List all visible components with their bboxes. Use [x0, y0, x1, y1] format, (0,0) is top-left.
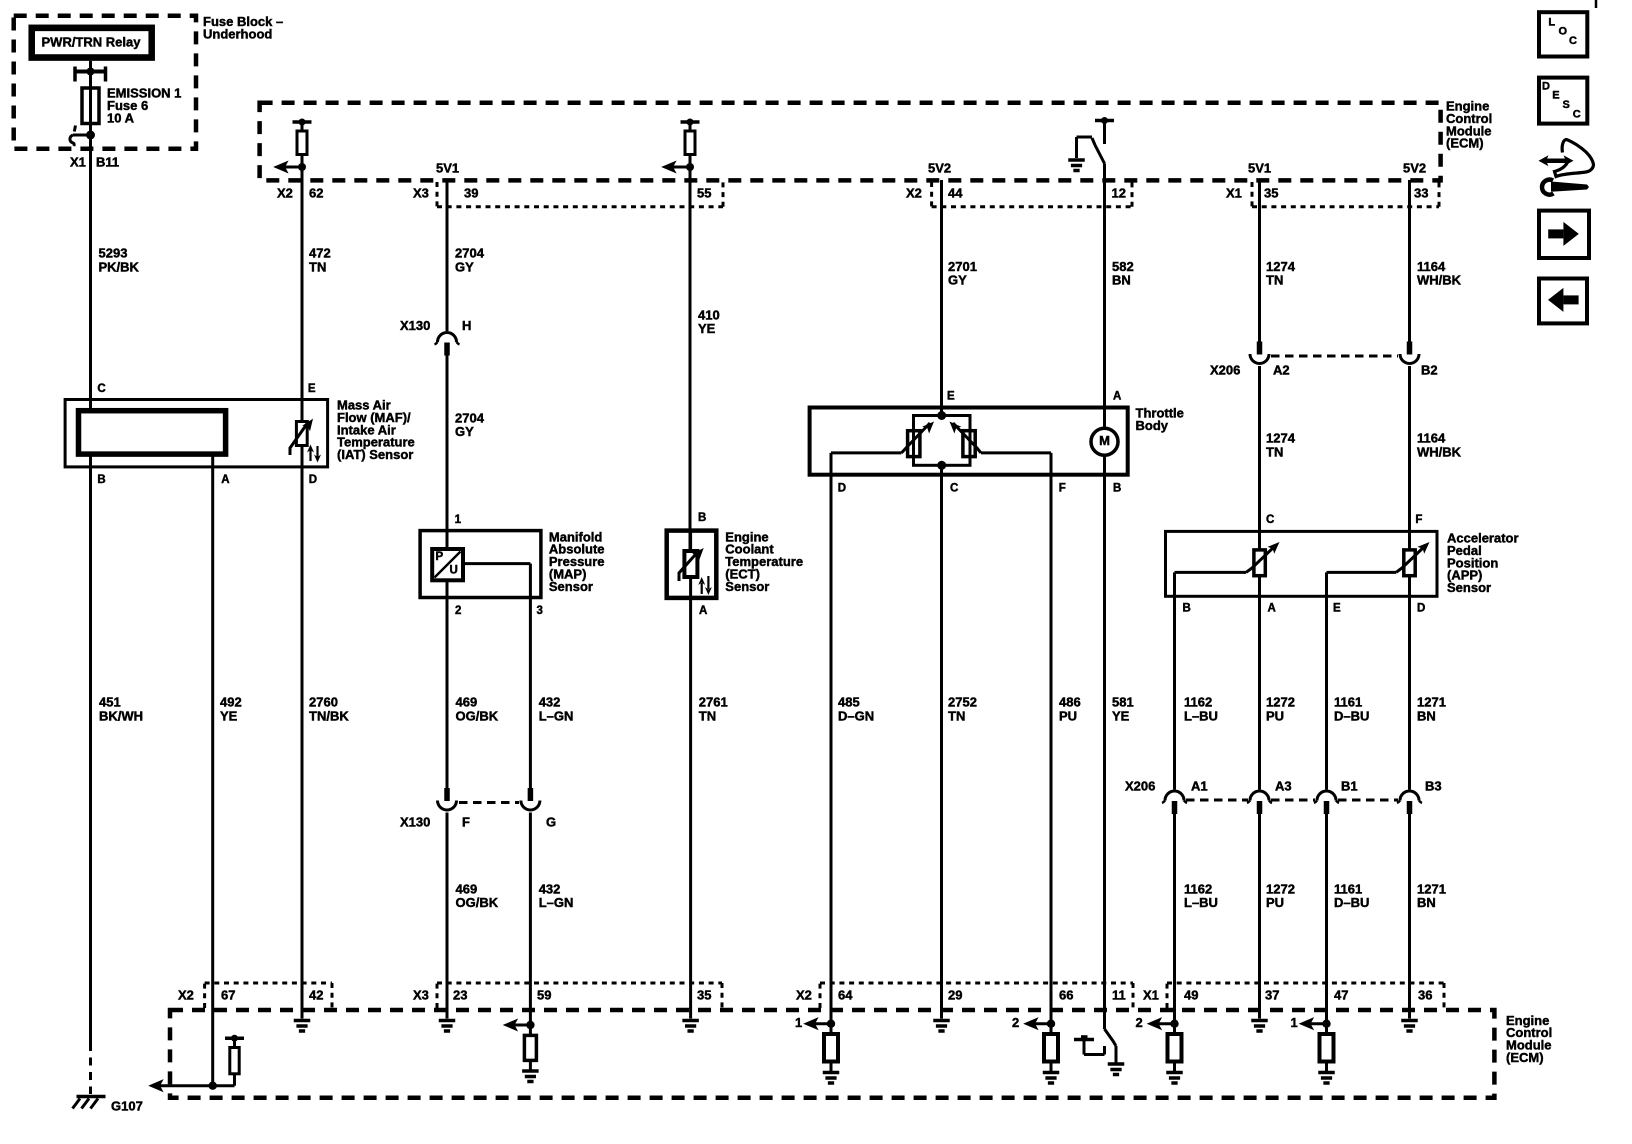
svg-text:432: 432	[539, 695, 561, 710]
svg-text:X130: X130	[400, 815, 430, 830]
svg-text:U: U	[450, 564, 458, 576]
svg-text:(ECM): (ECM)	[1506, 1050, 1544, 1065]
svg-text:Body: Body	[1136, 418, 1169, 433]
svg-text:2: 2	[1012, 1015, 1019, 1030]
svg-text:5293: 5293	[99, 246, 128, 261]
svg-text:M: M	[1099, 433, 1110, 448]
svg-text:55: 55	[697, 186, 711, 201]
svg-text:D: D	[838, 482, 846, 494]
svg-text:1164: 1164	[1417, 431, 1446, 446]
svg-text:TN: TN	[1266, 273, 1283, 288]
ECM internal resistor+arrow at pin 59	[504, 1020, 539, 1082]
svg-text:A2: A2	[1273, 363, 1290, 378]
svg-text:1: 1	[795, 1015, 802, 1030]
svg-text:X2: X2	[796, 988, 812, 1003]
svg-text:B1: B1	[1341, 779, 1358, 794]
dashed link X206 A2-B2	[1271, 355, 1398, 358]
APP sensor box	[1166, 531, 1519, 597]
wire 581 YE (TB B to ECM 11)	[1105, 475, 1134, 1029]
ECM ground at pin 36	[1401, 1021, 1418, 1032]
throttle body pin letters	[838, 391, 1122, 495]
wire 1271 BN (APP D to X206 B3)	[1410, 596, 1446, 789]
svg-text:(IAT) Sensor: (IAT) Sensor	[337, 447, 413, 462]
svg-text:44: 44	[948, 186, 963, 201]
svg-text:A: A	[1268, 603, 1276, 615]
APP pin letters C F B A E D	[1183, 514, 1426, 615]
svg-text:472: 472	[309, 246, 331, 261]
svg-text:2752: 2752	[948, 695, 977, 710]
svg-text:2704: 2704	[455, 246, 485, 261]
svg-text:42: 42	[309, 988, 323, 1003]
fuse EMISSION 1 / Fuse 6 / 10 A	[82, 86, 181, 136]
svg-text:469: 469	[456, 695, 478, 710]
svg-text:B11: B11	[96, 155, 119, 170]
inline connector X206 pin A1	[1125, 779, 1208, 815]
svg-text:P: P	[436, 551, 444, 563]
svg-text:Sensor: Sensor	[549, 579, 593, 594]
svg-text:GY: GY	[948, 273, 967, 288]
wire 472 TN (ECM 62 to MAF pin E)	[302, 167, 331, 422]
svg-text:5V2: 5V2	[1403, 161, 1426, 176]
wire 492 YE (MAF A to ECM 67)	[213, 454, 242, 1086]
svg-text:BN: BN	[1417, 709, 1436, 724]
connector strip X2 pins 64 / 29 / 66 / 11 (bottom)	[796, 983, 1133, 1008]
ECT pin letters B A	[698, 512, 707, 617]
svg-text:BN: BN	[1112, 273, 1131, 288]
connector X1 pin B11 labels	[70, 155, 119, 170]
svg-text:YE: YE	[698, 321, 716, 336]
svg-text:B: B	[698, 512, 706, 524]
svg-text:WH/BK: WH/BK	[1417, 445, 1462, 460]
wire 1161 D-BU (X206 B1 to ECM 47)	[1327, 814, 1370, 1024]
dashed links X206 A1-A3-B1-B3	[1186, 799, 1398, 802]
svg-text:5V1: 5V1	[436, 161, 459, 176]
svg-text:TN: TN	[699, 709, 716, 724]
svg-text:D–BU: D–BU	[1334, 895, 1369, 910]
svg-text:67: 67	[221, 988, 235, 1003]
svg-text:PK/BK: PK/BK	[99, 260, 140, 275]
svg-text:E: E	[1333, 603, 1341, 615]
ECM internal resistor at pin 62	[275, 119, 312, 173]
svg-text:L–GN: L–GN	[539, 895, 574, 910]
svg-text:5V2: 5V2	[928, 161, 951, 176]
svg-text:59: 59	[537, 988, 551, 1003]
svg-text:D–BU: D–BU	[1334, 709, 1369, 724]
svg-text:Underhood: Underhood	[203, 27, 272, 42]
ECM internal switch to ground at pin 11	[1074, 1029, 1124, 1075]
ECM ground at pin 29	[933, 1021, 950, 1032]
svg-text:A: A	[1113, 391, 1121, 403]
svg-text:C: C	[1266, 514, 1274, 526]
svg-text:D: D	[309, 474, 317, 486]
svg-text:3: 3	[537, 605, 543, 617]
svg-text:486: 486	[1059, 695, 1081, 710]
inline connector X130 pin H	[400, 318, 471, 356]
TPS 1 potentiometer (left)	[902, 422, 935, 457]
svg-text:D: D	[1417, 603, 1425, 615]
svg-text:C: C	[1573, 108, 1581, 120]
net label 5V2 at pin 44	[928, 161, 951, 176]
ECM bottom box (dashed boundary)	[170, 1010, 1552, 1098]
svg-text:62: 62	[309, 186, 323, 201]
svg-text:Sensor: Sensor	[725, 579, 769, 594]
svg-text:B: B	[97, 474, 105, 486]
svg-text:C: C	[97, 383, 105, 395]
svg-text:L–GN: L–GN	[539, 709, 574, 724]
svg-text:L–BU: L–BU	[1184, 709, 1218, 724]
svg-text:B2: B2	[1421, 363, 1438, 378]
TPS 2 potentiometer (right)	[950, 422, 982, 457]
wire 1271 BN (X206 B3 to ECM 36)	[1410, 814, 1446, 1019]
MAP sensor box	[420, 529, 604, 597]
svg-text:X3: X3	[413, 186, 429, 201]
svg-text:D–GN: D–GN	[838, 709, 874, 724]
svg-text:66: 66	[1059, 988, 1073, 1003]
svg-text:X2: X2	[178, 988, 194, 1003]
svg-text:36: 36	[1418, 988, 1432, 1003]
svg-text:1271: 1271	[1417, 695, 1446, 710]
svg-text:PU: PU	[1266, 895, 1284, 910]
inline connector X206 pin B3	[1397, 779, 1442, 815]
inline connector X130 pin F	[400, 788, 470, 830]
fuse holder lower clip and junction	[70, 126, 95, 147]
inline connector X206 pin B1	[1314, 779, 1358, 815]
svg-text:485: 485	[838, 695, 860, 710]
svg-text:F: F	[1415, 514, 1422, 526]
ECM top box (dashed boundary)	[260, 99, 1493, 181]
svg-text:L–BU: L–BU	[1184, 895, 1218, 910]
svg-text:BK/WH: BK/WH	[99, 709, 143, 724]
svg-text:TN/BK: TN/BK	[309, 709, 349, 724]
svg-text:1: 1	[455, 514, 462, 526]
svg-text:BN: BN	[1417, 895, 1436, 910]
svg-text:L: L	[1548, 17, 1555, 29]
ECM internal resistor current-source 1 at pin 64	[795, 1015, 839, 1083]
svg-text:H: H	[462, 318, 471, 333]
svg-text:1: 1	[1291, 1015, 1298, 1030]
MAF pin letters C E B A D	[97, 383, 317, 486]
svg-text:1272: 1272	[1266, 695, 1295, 710]
svg-text:X206: X206	[1125, 779, 1155, 794]
wire 451 BK/WH (MAF B to G107)	[91, 454, 144, 1094]
svg-text:B: B	[1183, 603, 1191, 615]
ECM internal resistor at pin 55	[663, 119, 700, 173]
wire 1164 WH/BK (X206 B2 to APP pin F)	[1410, 366, 1462, 550]
svg-text:2: 2	[1136, 1015, 1143, 1030]
connector strip X3 pins 23 / 59 / 35 (bottom)	[413, 983, 722, 1008]
svg-text:G107: G107	[111, 1099, 143, 1114]
connector strip X2 pins 44 / 12 (top)	[906, 182, 1132, 207]
svg-text:G: G	[546, 815, 556, 830]
svg-text:GY: GY	[455, 260, 474, 275]
wire 1161 D-BU (APP E to X206 B1)	[1327, 596, 1370, 789]
ECT thermistor	[679, 531, 712, 598]
wire 2752 TN (TB C to ECM 29)	[942, 465, 977, 1018]
ECM ground at pin 42	[294, 1021, 311, 1032]
svg-text:64: 64	[838, 988, 853, 1003]
svg-text:E: E	[1552, 90, 1559, 102]
APP wiper feed wires	[1175, 572, 1397, 596]
svg-text:(ECM): (ECM)	[1446, 136, 1484, 151]
ECM ground at pin 37	[1251, 1021, 1268, 1032]
svg-text:A1: A1	[1191, 779, 1208, 794]
icon flip/mirror with wrench	[1539, 140, 1594, 195]
svg-text:OG/BK: OG/BK	[456, 895, 499, 910]
svg-text:TN: TN	[1266, 445, 1283, 460]
svg-text:Sensor: Sensor	[1447, 580, 1491, 595]
wire 2760 TN/BK (MAF D to ECM 42)	[302, 467, 349, 1019]
throttle motor M	[1091, 408, 1118, 475]
connector strip X2 pins 67 / 42 (bottom)	[178, 983, 332, 1008]
svg-text:PWR/TRN Relay: PWR/TRN Relay	[42, 35, 142, 50]
MAP internal wire pin3	[463, 564, 530, 598]
MAF element (inner box)	[79, 411, 226, 454]
svg-text:X2: X2	[906, 186, 922, 201]
svg-text:YE: YE	[220, 709, 238, 724]
svg-text:35: 35	[1264, 186, 1278, 201]
APP potentiometer 2 (F/D/E)	[1396, 531, 1430, 596]
wire 469 OG/BK (MAP 2 to X130 F)	[447, 598, 499, 789]
wire 2701 GY (ECM 44 to throttle body pin E)	[942, 180, 977, 416]
svg-text:581: 581	[1112, 695, 1134, 710]
svg-text:TN: TN	[948, 709, 965, 724]
wire 410 YE (ECM 55 to ECT pin B)	[690, 167, 720, 551]
fuse holder upper terminal bracket	[75, 67, 106, 82]
svg-text:C: C	[1569, 35, 1577, 47]
throttle body box	[810, 406, 1184, 475]
svg-text:B: B	[1113, 482, 1121, 494]
net label 5V1 at pin 39	[436, 161, 459, 176]
ground G107	[73, 1097, 143, 1114]
MAP P/U transducer symbol	[432, 531, 463, 598]
svg-text:2: 2	[455, 605, 461, 617]
ECM ground at pin 23	[439, 1021, 456, 1032]
ECM internal resistor current-source 2 at pin 66	[1012, 1015, 1059, 1083]
wire from relay to fuse	[89, 61, 92, 88]
inline connector X130 pin G	[521, 788, 556, 830]
svg-text:29: 29	[948, 988, 962, 1003]
connector labels X2 / 62	[277, 186, 323, 201]
MAP pin numbers 1 2 3	[455, 514, 543, 617]
wire 1274 TN (ECM 35 to X206 A2)	[1260, 180, 1296, 342]
connector strip X3 pins 39 / 55 (top)	[413, 182, 723, 207]
icon button previous (left arrow)	[1539, 279, 1587, 324]
MAF/IAT sensor box	[65, 398, 415, 467]
icon button LOC	[1539, 12, 1587, 56]
svg-text:OG/BK: OG/BK	[456, 709, 499, 724]
wire 2761 TN (ECT A to ECM 35)	[691, 598, 728, 1019]
svg-text:2760: 2760	[309, 695, 338, 710]
svg-text:X206: X206	[1210, 363, 1240, 378]
wire 432 L-GN (X130 G to ECM 59)	[530, 813, 573, 1026]
svg-text:A: A	[221, 474, 229, 486]
svg-text:B3: B3	[1425, 779, 1442, 794]
svg-text:37: 37	[1265, 988, 1279, 1003]
page top tick mark	[1595, 0, 1598, 8]
svg-text:C: C	[950, 482, 958, 494]
icon button next (right arrow)	[1539, 211, 1589, 258]
wire 1162 L-BU (X206 A1 to ECM 49)	[1175, 814, 1218, 1024]
inline connector X206 pin A2	[1210, 342, 1290, 378]
connector strip X1 pins 49 / 37 / 47 / 36 (bottom)	[1143, 983, 1444, 1008]
wire 432 L-GN (MAP 3 to X130 G)	[530, 598, 573, 789]
svg-text:E: E	[308, 383, 316, 395]
wire 485 D-GN (TB D to ECM 64)	[831, 453, 874, 1024]
svg-text:GY: GY	[455, 424, 474, 439]
wire 486 PU (TB F to ECM 66)	[1051, 453, 1081, 1024]
wire 1162 L-BU (APP B to X206 A1)	[1175, 596, 1218, 789]
APP potentiometer 1 (C/A/B)	[1246, 531, 1280, 596]
wire 2704 GY (X130 H to MAP pin 1)	[447, 356, 485, 550]
svg-text:12: 12	[1112, 186, 1126, 201]
wire 1274 TN (X206 A2 to APP pin C)	[1260, 366, 1296, 550]
svg-text:A: A	[699, 605, 707, 617]
connector strip X1 pins 35 / 33 (top)	[1226, 182, 1439, 207]
inline connector X206 pin B2	[1400, 342, 1438, 378]
wire 1272 PU (X206 A3 to ECM 37)	[1260, 814, 1295, 1019]
wire 582 BN (ECM 12 to throttle body pin A)	[1105, 164, 1134, 429]
svg-text:X130: X130	[400, 318, 430, 333]
svg-text:49: 49	[1184, 988, 1198, 1003]
dashed link X130 F-G	[459, 801, 519, 804]
relay PWR/TRN	[32, 28, 152, 58]
svg-text:1161: 1161	[1334, 695, 1362, 710]
svg-text:O: O	[1559, 26, 1568, 38]
wire 1164 WH/BK (ECM 33 to X206 B2)	[1410, 180, 1462, 342]
svg-text:D: D	[1542, 80, 1550, 92]
svg-text:X1: X1	[1226, 186, 1242, 201]
svg-text:11: 11	[1112, 988, 1126, 1003]
svg-text:5V1: 5V1	[1248, 161, 1271, 176]
svg-text:PU: PU	[1266, 709, 1284, 724]
svg-text:F: F	[1059, 482, 1066, 494]
svg-text:F: F	[462, 815, 470, 830]
svg-text:X3: X3	[413, 988, 429, 1003]
svg-text:X1: X1	[70, 155, 86, 170]
wire 5293 PK/BK (B11 to MAF pin C)	[91, 135, 140, 411]
svg-text:23: 23	[453, 988, 467, 1003]
wire 2704 GY (ECM 39 to X130 H)	[447, 180, 485, 331]
fuse block - underhood (dashed boundary)	[14, 14, 284, 149]
svg-text:X2: X2	[277, 186, 293, 201]
svg-text:2761: 2761	[699, 695, 728, 710]
ECM internal resistor+arrow at pin 67	[150, 1035, 245, 1092]
ECM internal resistor current-source 2 at pin 49	[1136, 1015, 1183, 1083]
svg-text:TN: TN	[309, 260, 326, 275]
svg-text:10 A: 10 A	[107, 110, 135, 125]
icon button DESC	[1539, 78, 1587, 124]
ECM ground at pin 35	[682, 1021, 699, 1032]
svg-text:492: 492	[220, 695, 242, 710]
svg-text:A3: A3	[1275, 779, 1292, 794]
net label 5V2 at pin 33	[1403, 161, 1426, 176]
TPS wiper feed wires	[831, 451, 1051, 454]
svg-text:39: 39	[464, 186, 478, 201]
ECT sensor box	[667, 529, 803, 598]
svg-text:451: 451	[99, 695, 121, 710]
svg-text:1274: 1274	[1266, 431, 1296, 446]
wire 1272 PU (APP A to X206 A3)	[1260, 596, 1295, 789]
inline connector X206 pin A3	[1247, 779, 1292, 815]
ECM internal resistor current-source 1 at pin 47	[1291, 1015, 1335, 1083]
svg-text:47: 47	[1334, 988, 1348, 1003]
net label 5V1 at pin 35	[1248, 161, 1271, 176]
svg-text:33: 33	[1414, 186, 1428, 201]
svg-text:WH/BK: WH/BK	[1417, 273, 1462, 288]
TPS pair inner loop	[914, 411, 971, 470]
wire 469 OG/BK (X130 F to ECM 23)	[447, 813, 499, 1019]
svg-text:S: S	[1563, 99, 1570, 111]
svg-text:1162: 1162	[1184, 695, 1212, 710]
svg-text:YE: YE	[1112, 709, 1130, 724]
svg-text:E: E	[947, 391, 955, 403]
svg-text:X1: X1	[1143, 988, 1159, 1003]
ECM internal switch to ground at pin 12	[1068, 117, 1114, 171]
svg-text:PU: PU	[1059, 709, 1077, 724]
IAT thermistor inside MAF box	[290, 400, 321, 467]
svg-text:35: 35	[697, 988, 711, 1003]
